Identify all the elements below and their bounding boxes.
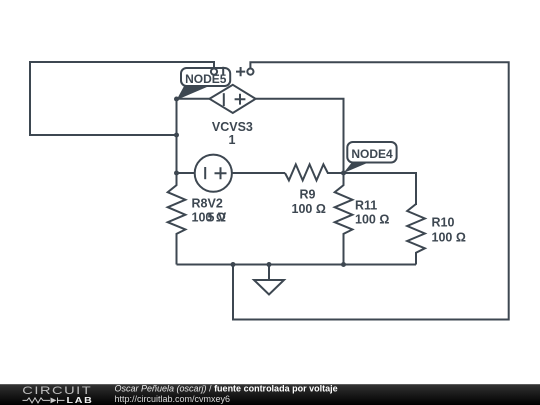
svg-text:NODE4: NODE4 [351, 147, 393, 161]
junction ground [267, 262, 272, 267]
VCVS3 input minus terminal [211, 69, 217, 75]
voltage source V2 [195, 155, 232, 192]
svg-text:VCVS3: VCVS3 [212, 120, 253, 134]
resistor R9 [285, 164, 344, 180]
wire VCVS right lead to NODE4 rail [256, 99, 344, 173]
junction bottom feedback [231, 262, 236, 267]
junction V2 left [174, 171, 179, 176]
svg-text:V2: V2 [208, 197, 223, 211]
VCVS3 minus mark inside diamond [223, 94, 225, 105]
logo LAB [67, 396, 94, 405]
wire left loop from node5 net to VCVS minus input [30, 62, 214, 135]
svg-text:1: 1 [229, 133, 236, 147]
logo resistor-diode glyph [23, 398, 65, 404]
svg-text:LAB: LAB [67, 396, 94, 405]
voltage source V2 leads [177, 172, 286, 174]
svg-text:NODE5: NODE5 [185, 72, 227, 86]
logo CIRCUIT [22, 384, 92, 397]
node NODE5 callout box [177, 68, 231, 100]
svg-text:R10: R10 [432, 216, 455, 230]
svg-text:R8: R8 [192, 197, 208, 211]
V2 minus mark [204, 167, 206, 179]
V2 plus mark [215, 167, 227, 179]
svg-text:R9: R9 [300, 187, 316, 201]
junction node4 [341, 171, 346, 176]
junction node5 [174, 97, 179, 102]
svg-text:R11: R11 [355, 199, 377, 213]
svg-text:100 Ω: 100 Ω [292, 202, 326, 216]
junction R11 bottom [341, 262, 346, 267]
wire ground net to VCVS plus input [233, 62, 509, 319]
dependent source VCVS3 diamond [210, 85, 256, 113]
VCVS3 input plus sign [236, 67, 245, 76]
svg-text:100 Ω: 100 Ω [432, 231, 466, 245]
wire bottom rail [177, 264, 417, 266]
resistor R8 [168, 173, 186, 265]
wire NODE5 vertical rail [176, 99, 178, 173]
wire NODE4 to R10 branch [344, 173, 417, 205]
VCVS3 input plus terminal [247, 69, 253, 75]
wire VCVS left lead [177, 98, 210, 100]
node NODE4 callout box [344, 142, 397, 173]
ground [268, 265, 270, 281]
VCVS3 input minus sign [222, 67, 224, 75]
resistor R10 [407, 204, 425, 265]
resistor R11 [335, 173, 353, 265]
svg-text:5 V: 5 V [208, 211, 227, 225]
VCVS3 plus mark inside diamond [235, 94, 246, 105]
svg-text:http://circuitlab.com/cvmxey6: http://circuitlab.com/cvmxey6 [115, 394, 231, 404]
junction left loop [174, 133, 179, 138]
svg-text:Oscar Peñuela (oscarj) / fuent: Oscar Peñuela (oscarj) / fuente controla… [115, 384, 338, 394]
svg-text:100 Ω: 100 Ω [355, 213, 389, 227]
